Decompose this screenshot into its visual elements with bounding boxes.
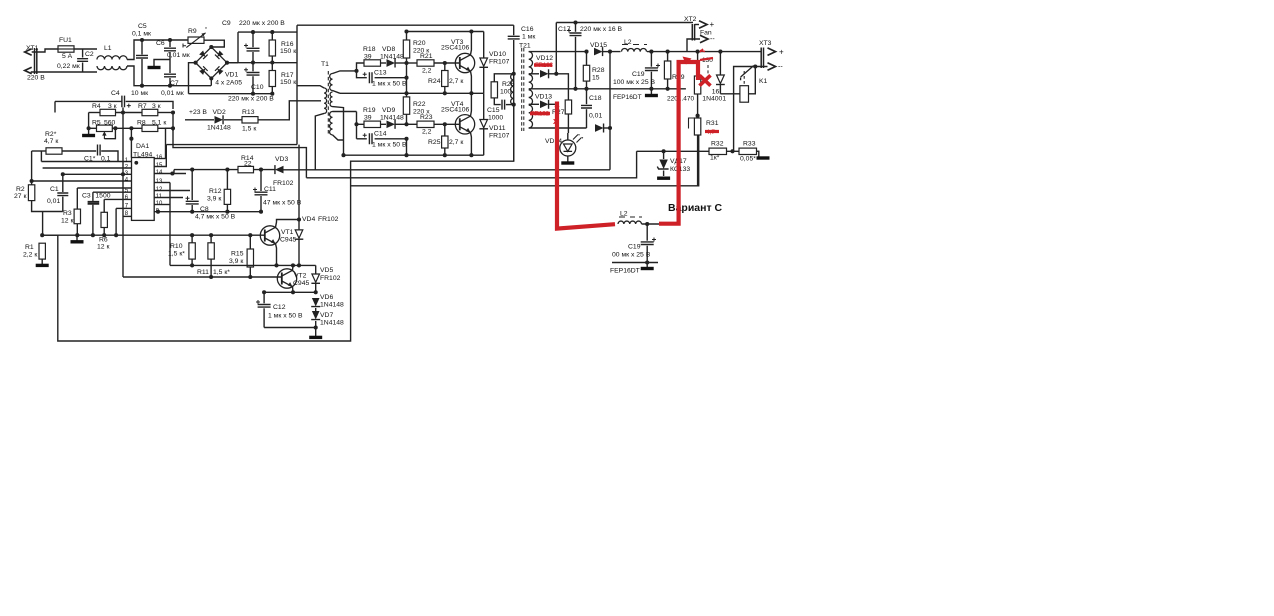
- diode VD4: [295, 230, 303, 238]
- red scribble on 130: [700, 58, 713, 60]
- capacitor C1: [62, 174, 64, 192]
- ground under VD7: [315, 328, 317, 337]
- resistor R15: [249, 235, 251, 249]
- trimmer R31: [689, 118, 695, 129]
- svg-text:VD15: VD15: [590, 42, 607, 49]
- emitter rail VT2: [264, 291, 316, 293]
- svg-text:+: +: [779, 48, 784, 57]
- resistor R12: [226, 170, 228, 190]
- resistor R30 chain: [697, 52, 699, 76]
- red wire from variant L2 up to output: [659, 62, 698, 224]
- wire pin9 to rail: [154, 211, 261, 213]
- capacitor C15: [494, 98, 500, 105]
- wire pin14 stub: [154, 173, 186, 175]
- diode VD10: [483, 32, 485, 58]
- svg-text:4 х 2А05: 4 х 2А05: [215, 80, 242, 87]
- transistor VT1: [260, 226, 279, 245]
- svg-text:VD5: VD5: [320, 267, 333, 274]
- svg-text:1N4001: 1N4001: [702, 95, 726, 102]
- wire R13 to T1 aux winding: [258, 101, 321, 120]
- svg-text:L1: L1: [104, 45, 112, 52]
- svg-text:1,5 к: 1,5 к: [242, 126, 256, 133]
- secondary center tap rail: [529, 88, 686, 90]
- svg-text:R2: R2: [16, 186, 25, 193]
- svg-text:0,1 мк: 0,1 мк: [132, 31, 151, 38]
- svg-text:2,2: 2,2: [422, 129, 432, 136]
- svg-text:R24: R24: [428, 78, 441, 85]
- svg-text:+23 В: +23 В: [189, 109, 207, 116]
- svg-text:1N4148: 1N4148: [380, 115, 404, 122]
- XT3 minus arrow: [768, 63, 776, 71]
- svg-text:VD9: VD9: [382, 107, 395, 114]
- wire bridge minus to negative rail: [189, 63, 196, 94]
- capacitor C16: [513, 25, 515, 35]
- fuse FU1: [58, 46, 74, 52]
- wire pin6 from R6: [104, 198, 131, 200]
- inductor L2: [621, 44, 648, 53]
- resistor R6: [103, 199, 105, 212]
- wire VT3 collector: [470, 32, 473, 55]
- svg-text:C14: C14: [374, 131, 387, 138]
- emitter rail upper: [340, 92, 484, 94]
- XT3 plus arrow: [768, 48, 776, 56]
- wire pin16 riser: [166, 128, 174, 158]
- resistor R29: [667, 52, 669, 61]
- wire x173 column down: [173, 128, 306, 178]
- transformer T21 core: [522, 48, 524, 131]
- svg-text:FR102: FR102: [318, 216, 339, 223]
- resistor R23: [407, 123, 418, 125]
- svg-text:VD10: VD10: [489, 51, 506, 58]
- ground after R33: [757, 151, 759, 156]
- wire VD12 to 16V rail: [555, 23, 557, 74]
- capacitor C8: [191, 170, 193, 200]
- svg-text:1 мк х 50 В: 1 мк х 50 В: [268, 313, 303, 320]
- svg-text:FR102: FR102: [320, 275, 341, 282]
- svg-text:VD1: VD1: [225, 72, 238, 79]
- T1 winding A: [330, 74, 333, 91]
- svg-text:VD11: VD11: [489, 125, 506, 132]
- resistor R14: [238, 166, 254, 172]
- red X cross out: [700, 75, 711, 85]
- secondary tap VD12: [529, 73, 539, 75]
- svg-text:R10: R10: [170, 243, 183, 250]
- svg-text:R11: R11: [197, 269, 209, 276]
- negative DC rail: [189, 93, 273, 95]
- svg-text:VD7: VD7: [320, 312, 333, 319]
- svg-text:R21: R21: [420, 53, 433, 60]
- wire R23 to VT4 base: [434, 123, 460, 125]
- dashed link removed part: [707, 65, 709, 80]
- svg-text:--: --: [710, 36, 715, 43]
- resistor R2: [31, 181, 33, 185]
- relay actuator dashed: [743, 71, 745, 85]
- svg-text:C19: C19: [632, 71, 645, 78]
- wire right column to pin16: [172, 113, 174, 129]
- diode VD5: [315, 265, 317, 273]
- svg-text:C16: C16: [521, 26, 534, 33]
- svg-text:VD14: VD14: [545, 138, 562, 145]
- svg-text:C945: C945: [280, 237, 296, 244]
- wire XT1 bottom to L1: [31, 71, 97, 73]
- resistor R27: [556, 74, 568, 100]
- wire pin12 stub: [154, 190, 190, 192]
- svg-text:12 к: 12 к: [97, 244, 109, 251]
- potentiometer R5: [88, 113, 90, 129]
- svg-text:C7: C7: [170, 80, 179, 87]
- red strike FR103 under VD12: [534, 63, 552, 67]
- svg-text:C945: C945: [293, 280, 309, 287]
- svg-text:12 к: 12 к: [61, 218, 73, 225]
- wire L1 to bottom rail: [127, 66, 211, 86]
- wire riser to pin1 line: [40, 151, 42, 162]
- svg-text:C3: C3: [82, 193, 91, 200]
- ground on 0V rail: [650, 89, 652, 94]
- capacitor C18: [586, 89, 588, 104]
- resistor R33: [739, 148, 757, 154]
- svg-text:10 мк: 10 мк: [131, 90, 148, 97]
- transistor VT3: [455, 53, 474, 72]
- svg-text:2,7 к: 2,7 к: [449, 139, 463, 146]
- svg-text:K1: K1: [759, 78, 768, 85]
- svg-text:R13: R13: [242, 109, 255, 116]
- resistor R11: [210, 235, 212, 243]
- diode VD16 bottom: [595, 124, 604, 132]
- wire R4-R7 row: [116, 112, 143, 114]
- svg-text:R7: R7: [138, 103, 147, 110]
- T1 winding B2: [330, 112, 333, 135]
- svg-text:R16: R16: [281, 41, 294, 48]
- sense rail: [637, 150, 759, 152]
- wire C14 junction down: [406, 139, 408, 155]
- resistor R22: [406, 93, 408, 97]
- capacitor C6: [169, 40, 171, 47]
- svg-text:2SC4106: 2SC4106: [441, 45, 470, 52]
- resistor R13: [224, 119, 242, 121]
- svg-text:+: +: [710, 20, 715, 29]
- svg-text:VD2: VD2: [213, 109, 226, 116]
- T21 primary winding: [511, 74, 514, 105]
- svg-text:39: 39: [364, 54, 372, 61]
- LED VD14: [567, 114, 569, 133]
- diode VD12: [540, 70, 549, 78]
- svg-text:220 мк х 200 В: 220 мк х 200 В: [228, 96, 274, 103]
- svg-text:C2: C2: [85, 51, 94, 58]
- svg-text:2,2 к: 2,2 к: [23, 252, 37, 259]
- wire fan minus: [687, 39, 700, 52]
- svg-text:*: *: [205, 27, 207, 33]
- svg-text:47 мк х 50 В: 47 мк х 50 В: [263, 200, 302, 207]
- svg-text:VD8: VD8: [382, 46, 395, 53]
- svg-text:1 мк х 50 В: 1 мк х 50 В: [372, 81, 407, 88]
- collector rail VT2: [170, 264, 316, 266]
- svg-text:VD13: VD13: [535, 94, 552, 101]
- capacitor C2: [82, 49, 84, 58]
- svg-text:C5: C5: [138, 23, 147, 30]
- red strike under R31: [705, 130, 719, 133]
- resistor R17: [271, 63, 273, 71]
- svg-text:XT3: XT3: [759, 40, 772, 47]
- base rail to VT1: [42, 234, 264, 236]
- node T1 A top: [354, 69, 358, 73]
- svg-text:1N4148: 1N4148: [320, 320, 344, 327]
- wire R21 to VT3 base: [434, 62, 460, 64]
- T1 winding C primary side: [324, 88, 327, 113]
- wire sense line lower: [306, 151, 636, 178]
- resistor R32: [709, 148, 727, 154]
- wire pin7 drop: [116, 207, 131, 209]
- svg-text:0,01: 0,01: [589, 113, 602, 120]
- wire pin5: [93, 191, 132, 193]
- ground under VD14: [567, 156, 569, 162]
- svg-text:VD12: VD12: [536, 55, 553, 62]
- wire L2 to node: [642, 223, 660, 225]
- svg-text:R32: R32: [711, 141, 724, 148]
- wire pin4b from R3: [77, 187, 131, 189]
- wire R2* down to pin4 line: [31, 151, 33, 181]
- svg-text:1,5 к*: 1,5 к*: [168, 251, 185, 258]
- capacitor C19 variant: [646, 224, 648, 241]
- svg-text:R33: R33: [743, 141, 756, 148]
- svg-text:0,22 мк: 0,22 мк: [57, 63, 80, 70]
- feedback wire pin15: [166, 144, 297, 146]
- svg-text:4,7 к: 4,7 к: [44, 138, 58, 145]
- thermistor R9: [188, 37, 204, 43]
- svg-text:4,7 мк х 50 В: 4,7 мк х 50 В: [195, 214, 236, 221]
- svg-text:R18: R18: [363, 46, 376, 53]
- svg-text:R9: R9: [188, 28, 197, 35]
- wire XT1 top to FU1: [32, 49, 58, 52]
- resistor R10: [191, 235, 193, 243]
- red mark near XT3 node: [700, 49, 705, 52]
- wire L1 to C5 top rail: [127, 40, 190, 60]
- relay K1 coil: [740, 86, 749, 103]
- feedback wire VD3 to output: [283, 169, 610, 171]
- inductor L1 common-mode choke: [97, 56, 127, 60]
- wire pin15 riser to feedback line: [154, 145, 166, 167]
- resistor R28: [586, 52, 588, 66]
- svg-text:R20: R20: [413, 40, 426, 47]
- capacitor C14: [357, 138, 367, 140]
- svg-text:L2: L2: [624, 39, 632, 46]
- svg-text:FEP16DT: FEP16DT: [613, 94, 642, 101]
- wire pin4 long: [32, 180, 132, 182]
- wire VT4 collector: [470, 93, 473, 116]
- diode VD15: [594, 48, 603, 56]
- svg-text:100: 100: [500, 89, 512, 96]
- svg-text:VT1: VT1: [281, 229, 294, 236]
- svg-text:FU1: FU1: [59, 37, 72, 44]
- capacitor C17: [575, 23, 577, 32]
- wire driver box left edge: [296, 25, 298, 144]
- svg-text:5,1 к: 5,1 к: [152, 120, 166, 127]
- svg-text:00 мк х 25 В: 00 мк х 25 В: [612, 252, 651, 259]
- wire top divider rail: [55, 100, 122, 102]
- collector rail VT3: [407, 31, 484, 33]
- svg-text:VD6: VD6: [320, 294, 333, 301]
- wire relay left: [720, 93, 740, 95]
- wire relay right: [749, 67, 756, 94]
- wire pin10 riser: [154, 204, 170, 206]
- diode VD13: [540, 100, 549, 108]
- svg-text:R2*: R2*: [45, 131, 57, 138]
- svg-text:R25: R25: [428, 139, 441, 146]
- svg-text:VD3: VD3: [275, 156, 288, 163]
- wire VT2 collector: [292, 265, 295, 270]
- svg-text:T21: T21: [519, 43, 531, 50]
- svg-text:150 к: 150 к: [280, 79, 296, 86]
- svg-text:C11: C11: [264, 186, 276, 193]
- svg-text:XT2: XT2: [684, 16, 697, 23]
- svg-text:C10: C10: [251, 84, 264, 91]
- diode VD11: [483, 93, 485, 119]
- wire bridge plus to +310V rail: [227, 62, 238, 64]
- svg-text:R12: R12: [209, 188, 222, 195]
- diode VD9: [381, 123, 387, 125]
- capacitor C1*: [62, 150, 96, 152]
- resistor R25: [444, 124, 446, 136]
- svg-text:FR102: FR102: [273, 180, 294, 187]
- resistor R8: [112, 127, 142, 129]
- capacitor C4: [122, 96, 125, 108]
- svg-text:C12: C12: [273, 304, 286, 311]
- transistor VT4: [455, 115, 474, 134]
- svg-text:FR107: FR107: [489, 133, 510, 140]
- svg-text:0,1: 0,1: [101, 156, 111, 163]
- resistor R20: [406, 32, 408, 41]
- svg-text:39: 39: [364, 115, 372, 122]
- svg-text:C9: C9: [222, 20, 231, 27]
- svg-text:3,9 к: 3,9 к: [207, 196, 221, 203]
- wire base row VT2: [123, 276, 282, 278]
- wire R31 down: [697, 135, 699, 186]
- +310V top rail: [238, 31, 297, 33]
- svg-text:R1: R1: [25, 244, 34, 251]
- diode VD6: [312, 298, 320, 307]
- svg-text:--: --: [778, 64, 783, 71]
- svg-text:R17: R17: [281, 72, 294, 79]
- XT2 minus arrow: [700, 35, 708, 43]
- svg-text:C1*: C1*: [84, 156, 96, 163]
- XT2 plus arrow: [699, 21, 707, 29]
- svg-text:2SC4106: 2SC4106: [441, 107, 470, 114]
- wire R2 bottom: [32, 201, 63, 212]
- svg-text:C15: C15: [487, 107, 500, 114]
- wire main return loop: [43, 105, 514, 341]
- wire C4 to right corner: [126, 101, 173, 109]
- svg-text:R6: R6: [99, 237, 108, 244]
- chip DA1 TL494: [132, 158, 155, 221]
- svg-text:C1: C1: [50, 186, 59, 193]
- svg-text:3 к: 3 к: [108, 103, 117, 110]
- wire minus to sense node: [734, 67, 768, 152]
- wire VT1 collector: [276, 220, 300, 228]
- resistor R26: [494, 74, 513, 82]
- svg-text:0,01 мк: 0,01 мк: [161, 90, 184, 97]
- svg-text:VT2: VT2: [294, 273, 307, 280]
- diode VD18 1N4001: [719, 52, 721, 75]
- svg-text:1к*: 1к*: [710, 155, 720, 162]
- T21 secondary winding: [529, 52, 533, 128]
- svg-text:560: 560: [104, 120, 116, 127]
- svg-text:1N4148: 1N4148: [380, 54, 404, 61]
- svg-text:1000: 1000: [488, 115, 503, 122]
- svg-text:1,5 к*: 1,5 к*: [213, 269, 230, 276]
- wire left edge lower: [298, 145, 300, 230]
- transistor VT2: [277, 269, 296, 288]
- svg-text:4,7: 4,7: [706, 129, 715, 136]
- svg-text:1N4148: 1N4148: [320, 302, 344, 309]
- T1 winding B: [330, 92, 332, 107]
- svg-text:C8: C8: [200, 206, 209, 213]
- svg-text:220 мк х 200 В: 220 мк х 200 В: [239, 20, 285, 27]
- red strike FR102 under VD13: [530, 112, 550, 116]
- svg-text:R19: R19: [363, 107, 376, 114]
- svg-text:3 к: 3 к: [152, 103, 161, 110]
- wire sense column: [609, 52, 611, 170]
- svg-text:FR102: FR102: [531, 112, 550, 118]
- emitter rail lower: [344, 154, 484, 156]
- svg-text:5 А: 5 А: [62, 53, 73, 60]
- resistor R7: [142, 109, 158, 115]
- svg-text:R22: R22: [413, 101, 426, 108]
- svg-text:R23: R23: [420, 114, 433, 121]
- transformer T1 core: [327, 71, 329, 135]
- diode VD2: [185, 119, 214, 121]
- svg-text:0,01 мк: 0,01 мк: [167, 52, 190, 59]
- svg-text:Вариант С: Вариант С: [668, 202, 723, 214]
- wire wiper to pin2: [130, 128, 132, 157]
- capacitor C7: [169, 60, 171, 74]
- wire R1 feed: [42, 212, 44, 236]
- bridge rectifier VD1: [196, 47, 227, 78]
- wire R2* left lead: [32, 150, 46, 152]
- main +12V rail: [610, 51, 762, 53]
- svg-text:R15: R15: [231, 251, 244, 258]
- svg-text:C13: C13: [374, 70, 387, 77]
- wire AC bottom to bridge: [210, 78, 212, 85]
- resistor R2*: [46, 148, 62, 154]
- relay switch contact: [741, 66, 754, 81]
- wire pin13 stub: [154, 182, 170, 184]
- svg-text:L2: L2: [620, 211, 628, 218]
- wire pin3 from C1: [63, 173, 132, 175]
- svg-text:1N4148: 1N4148: [207, 125, 231, 132]
- wire driver box top rail: [297, 24, 514, 26]
- secondary bottom tap: [529, 127, 587, 129]
- wire pin11 stub: [154, 197, 183, 199]
- ground on base rail: [76, 235, 78, 240]
- svg-text:R28: R28: [592, 67, 605, 74]
- svg-text:220...470: 220...470: [667, 96, 694, 103]
- resistor R21: [407, 62, 418, 64]
- wire pin2 long: [43, 167, 132, 169]
- svg-text:C4: C4: [111, 90, 120, 97]
- svg-text:R8: R8: [137, 120, 146, 127]
- resistor R16: [271, 32, 273, 40]
- svg-text:220 В: 220 В: [27, 75, 45, 82]
- secondary tap top: [529, 51, 587, 53]
- svg-text:R26: R26: [502, 81, 515, 88]
- svg-text:C6: C6: [156, 40, 165, 47]
- svg-text:1 мк х 50 В: 1 мк х 50 В: [372, 142, 407, 149]
- diode VD7: [315, 308, 317, 311]
- resistor R4: [89, 112, 100, 114]
- diode VD3: [275, 166, 284, 174]
- wire FU1 to L1 top: [74, 48, 97, 50]
- resistor R3: [76, 188, 78, 209]
- wire VT3 emitter: [470, 71, 473, 93]
